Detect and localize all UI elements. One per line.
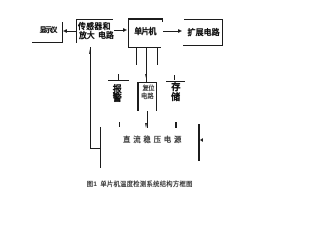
wire B to A bbox=[67, 31, 76, 32]
box A label 显示仪 bbox=[40, 28, 56, 35]
right element tick (arrow remnant) bbox=[174, 75, 176, 80]
box D label 扩展电路 bbox=[188, 29, 220, 37]
arrowhead into A (points left) bbox=[63, 29, 67, 33]
left element bottom tick bbox=[119, 122, 121, 128]
box B label line1 传感器和 bbox=[78, 23, 111, 31]
box D (bottom edge) bbox=[183, 45, 223, 46]
box C (right edge stub) bbox=[162, 18, 163, 22]
middle box (right edge) bbox=[156, 82, 157, 111]
caption 图1 ... 框图 bbox=[87, 182, 193, 188]
left element label 报 bbox=[113, 85, 122, 94]
left element tick (arrow remnant) bbox=[118, 74, 120, 79]
power box label 直流稳压电源 bbox=[123, 136, 184, 143]
box C (left edge) bbox=[128, 18, 129, 47]
left element top line bbox=[108, 80, 129, 81]
power box right edge bbox=[198, 124, 199, 161]
wire stub C bottom left bbox=[136, 48, 137, 65]
wire C down to middle box (with arrow) bbox=[146, 48, 147, 83]
arrowhead into D (points right) bbox=[178, 29, 182, 33]
box A 显示仪 (right edge) bbox=[62, 22, 63, 43]
right element bottom tick bbox=[175, 122, 177, 128]
arrowhead on middle-down wire bbox=[145, 123, 147, 128]
wire stub C bottom right bbox=[157, 48, 158, 65]
box B label line2 放大 电路 bbox=[79, 32, 114, 40]
wire B to C bbox=[114, 30, 124, 31]
wire C to D bbox=[163, 31, 179, 32]
arrowhead up into B bbox=[89, 49, 91, 54]
box C label 单片机 bbox=[134, 28, 155, 36]
left element label 警 bbox=[113, 94, 122, 103]
wire power to B (long vertical, arrow up at top) bbox=[90, 47, 91, 149]
wire bottom horizontal joint bbox=[90, 148, 101, 149]
box D (right edge) bbox=[222, 19, 223, 46]
right element label 储 bbox=[171, 93, 180, 102]
right element label 存 bbox=[171, 83, 180, 92]
box C 单片机 (top edge) bbox=[128, 18, 163, 19]
box D 扩展电路 (top edge) bbox=[184, 19, 224, 20]
middle box (left edge) bbox=[137, 82, 138, 111]
box B 传感器和放大电路 (top edge) bbox=[76, 19, 113, 20]
box A 显示仪 (bottom edge) bbox=[32, 42, 63, 43]
power box left edge bbox=[100, 127, 101, 167]
right element top line bbox=[166, 81, 185, 82]
arrowhead into C (points right) bbox=[123, 28, 127, 32]
box C (bottom edge) bbox=[128, 47, 161, 48]
middle box label line1 复位 bbox=[143, 86, 154, 92]
box B (left edge) bbox=[76, 19, 77, 43]
wire middle box down (with arrow) bbox=[147, 111, 148, 128]
middle box 复位电路 (top edge) bbox=[137, 82, 157, 83]
middle box label line2 电路 bbox=[141, 94, 154, 100]
arrowhead on middle wire bbox=[145, 74, 147, 78]
arrowhead into power box right edge (points left) bbox=[200, 138, 203, 142]
